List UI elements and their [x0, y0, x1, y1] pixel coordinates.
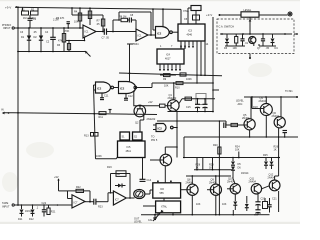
svg-text:IC7: IC7	[74, 202, 79, 205]
resistor R3	[57, 27, 66, 52]
resistors vertical to y157 rail	[197, 158, 213, 170]
text extra value labels	[74, 10, 277, 206]
wire gate input rail down	[94, 85, 96, 159]
relay box K1a	[120, 132, 130, 140]
svg-text:IC3: IC3	[188, 30, 193, 33]
svg-text:ADJ.: ADJ.	[238, 103, 244, 106]
svg-text:R19: R19	[107, 166, 112, 169]
svg-text:10K: 10K	[164, 85, 169, 88]
node +9V arrow bottom	[54, 176, 60, 191]
wire Q10 top	[233, 179, 235, 184]
svg-text:C22: C22	[42, 202, 47, 205]
diode D11	[20, 205, 24, 217]
resistor R26	[274, 146, 279, 152]
wire switch lower links	[225, 43, 276, 46]
IC U3 timebase	[178, 24, 205, 41]
text label OUTPUT	[134, 218, 142, 224]
svg-text:IC1: IC1	[138, 35, 143, 38]
wire input line	[14, 27, 83, 29]
resistor R28 label row	[196, 164, 215, 170]
svg-text:INPUT: INPUT	[3, 27, 11, 30]
wire T2 bottom drops	[158, 213, 173, 215]
diode D4 in switch	[271, 34, 275, 46]
svg-text:.05: .05	[33, 31, 37, 34]
wire Q12 collector	[275, 158, 279, 181]
diode D8	[270, 158, 274, 170]
capacitor C16 electrolytic	[203, 98, 208, 112]
svg-text:IC4: IC4	[166, 54, 171, 57]
wire bottom bus	[141, 214, 258, 216]
svg-text:2N404: 2N404	[259, 100, 267, 103]
text switch component values	[224, 42, 278, 50]
capacitor C19 input	[224, 123, 227, 129]
svg-text:IC2: IC2	[120, 87, 125, 91]
resistor R13 label midleft	[84, 133, 98, 138]
resistor R11 on trigger bus	[99, 112, 107, 119]
potentiometer LEVEL	[241, 9, 259, 22]
wire Q5 collector up	[250, 97, 252, 119]
svg-text:R13: R13	[84, 135, 89, 138]
capacitor C15 electrolytic	[186, 99, 200, 112]
node junction to feedback	[112, 31, 114, 33]
wire nub at y90	[212, 89, 219, 91]
wire gate b output drop to driver bases	[134, 89, 160, 106]
wire feedback riser opamp2	[112, 20, 114, 32]
wire IC5 input left	[96, 158, 117, 159]
ground tick below bus	[153, 215, 157, 220]
wire left rail vertical	[17, 7, 19, 205]
svg-text:2N404: 2N404	[249, 180, 257, 183]
svg-text:R11: R11	[99, 116, 104, 119]
wire IC5 pin drop	[140, 158, 152, 183]
diode D12	[31, 205, 35, 217]
wire +9V top bus	[15, 7, 181, 9]
wire opamp4 output	[126, 197, 134, 199]
diode D1	[21, 27, 31, 52]
svg-text:4017: 4017	[165, 58, 171, 61]
svg-text:R21: R21	[51, 211, 56, 214]
wire between gates	[114, 87, 119, 89]
op-amp IC7b	[113, 191, 126, 205]
resistor R16 on divider bus	[180, 73, 186, 76]
transistor Q5	[242, 114, 255, 130]
svg-text:.05: .05	[266, 47, 270, 50]
wire long trigger bus	[13, 112, 157, 115]
resistor R25 feedback opamp4	[111, 171, 131, 199]
capacitor C2	[46, 27, 56, 52]
gate IC2b	[94, 82, 114, 93]
svg-text:LEVEL: LEVEL	[134, 221, 142, 224]
svg-text:470K: 470K	[64, 30, 70, 33]
wire pot right to output terminal	[259, 14, 288, 16]
capacitor C9 in switch	[240, 34, 244, 46]
text tape input values	[18, 207, 39, 222]
capacitor C20 electrolytic stack	[255, 194, 260, 215]
svg-text:TO M1: TO M1	[285, 90, 293, 93]
wire Q1 collector up to clock bus	[173, 82, 175, 100]
svg-text:C12: C12	[128, 95, 133, 98]
transistor Q7 switch	[249, 36, 256, 43]
diode D9 below Q10	[233, 194, 237, 210]
wire Q10 base left	[227, 188, 233, 190]
wire Q2 emitter down	[143, 114, 145, 120]
wire top rail right	[244, 90, 298, 98]
wire boxes to IC5	[125, 140, 138, 141]
transistor Q3	[160, 154, 172, 166]
wire meter return to T2	[143, 205, 156, 207]
wire opamp2 bottom to divider bus	[127, 44, 133, 82]
capacitor C5 trimmer	[184, 15, 200, 21]
capacitor C11 under gate b	[100, 94, 104, 100]
small box C17	[196, 94, 206, 105]
svg-text:2N2222: 2N2222	[147, 118, 156, 121]
svg-text:10K: 10K	[196, 203, 201, 206]
svg-text:.05: .05	[96, 23, 100, 26]
node phono input terminal	[2, 24, 14, 30]
node +9V supply terminal	[5, 6, 17, 10]
svg-text:R18: R18	[253, 106, 258, 109]
wire Q3 base	[150, 159, 164, 161]
wire x184 riser	[183, 137, 185, 158]
wire gate d output	[173, 127, 178, 129]
svg-text:C.A. SWITCH: C.A. SWITCH	[219, 26, 235, 29]
capacitor C7 coupling	[102, 29, 137, 40]
wire feedback top loop	[118, 12, 151, 35]
wire Q4 emitter down	[265, 116, 267, 138]
svg-text:+9 V: +9 V	[206, 13, 212, 17]
capacitor C13 tick	[109, 110, 112, 114]
capacitor C22	[42, 202, 47, 217]
svg-text:4046: 4046	[187, 34, 193, 37]
text label LEVEL ADJ	[236, 100, 244, 106]
resistor R12 in switch	[235, 34, 238, 46]
wire Q3 collector link	[165, 146, 178, 154]
capacitor C10 in switch	[261, 34, 265, 46]
svg-text:C14: C14	[147, 179, 152, 182]
wire rail y169.7	[194, 169, 233, 171]
svg-text:2.2M: 2.2M	[53, 19, 59, 22]
wire diode column to bus	[232, 210, 234, 215]
svg-text:1K: 1K	[209, 167, 212, 170]
text label TO PIN	[151, 136, 158, 142]
wire T1-T2 stub	[163, 198, 165, 201]
svg-text:100K: 100K	[96, 155, 102, 158]
svg-text:IC2: IC2	[158, 127, 163, 131]
wire vertical x177 down	[176, 112, 178, 158]
wire cluster bottom rail	[168, 111, 214, 113]
box T1	[153, 181, 181, 199]
wire Q11-Q12 link	[262, 186, 270, 189]
svg-text:INPUT: INPUT	[2, 205, 10, 208]
node bias label mid	[148, 101, 153, 104]
wire Q9 base	[207, 189, 214, 191]
svg-text:+9V: +9V	[54, 176, 59, 179]
svg-text:C11: C11	[104, 95, 109, 98]
svg-text:IC1: IC1	[85, 31, 90, 34]
capacitor C6 on input	[64, 22, 70, 33]
transistor Q12	[268, 173, 281, 190]
wire tape input line	[14, 204, 72, 206]
svg-text:IC2: IC2	[157, 32, 162, 36]
diode D5 chain	[231, 158, 241, 179]
wire mid bus right continuation	[157, 121, 226, 125]
node trigger input terminal	[1, 109, 13, 115]
wire bus drop to gate top	[162, 8, 164, 26]
transistor Q4	[259, 97, 273, 116]
svg-text:10K: 10K	[235, 149, 240, 152]
wire Q9 emitter	[215, 195, 217, 214]
svg-text:IC5: IC5	[127, 146, 132, 149]
svg-text:XTAL: XTAL	[161, 206, 168, 209]
gate IC2d	[153, 124, 173, 132]
capacitor C12 under gate c	[124, 94, 128, 100]
svg-text:C15: C15	[186, 106, 191, 109]
wire right edge drop	[278, 191, 280, 212]
transistor Q1	[168, 94, 180, 111]
wiper arrow into T2	[148, 210, 164, 222]
op-amp IC1a	[83, 25, 96, 38]
transistor Q8	[186, 179, 199, 196]
wire Q8 base	[181, 189, 191, 191]
resistor R27 small loop	[263, 198, 268, 209]
capacitor C23 series on output	[94, 192, 114, 209]
wire wiper into switch box	[249, 22, 251, 35]
pin number labels IC3	[180, 46, 194, 48]
wire long rail from +9V label down	[212, 17, 214, 112]
wire Q6 emitter down	[278, 128, 280, 158]
capacitor C21	[267, 198, 271, 213]
wire gate output to IC3	[172, 31, 178, 33]
svg-text:100K: 100K	[186, 78, 192, 81]
wire bus drop to gate input	[152, 8, 155, 30]
wire divider bus y75	[119, 73, 222, 76]
wire opamp3 plus input	[58, 204, 73, 206]
svg-text:47K: 47K	[58, 40, 63, 43]
capacitor C18 beside Q6	[283, 131, 288, 138]
op-amp IC1b	[133, 29, 148, 46]
IC4 bottom pin stubs	[159, 64, 181, 71]
wire opamp2 output to gate	[148, 34, 155, 36]
svg-text:1N914: 1N914	[241, 172, 249, 175]
capacitor C8 feedback	[128, 14, 137, 29]
svg-text:4511: 4511	[126, 150, 132, 153]
transistor Q10	[227, 177, 241, 194]
gate IC2c	[119, 82, 137, 94]
diode D10	[245, 196, 249, 211]
wire Q5 base input	[227, 123, 247, 126]
wire bottom right link	[254, 214, 270, 216]
wire Q9 collector	[215, 176, 217, 184]
transistor Q9	[209, 179, 221, 196]
resistor R5 to ground bus	[58, 40, 71, 53]
svg-text:D11: D11	[18, 218, 23, 221]
transistor Q2	[134, 105, 146, 124]
svg-text:10K: 10K	[222, 203, 227, 206]
IC3 bottom pin stubs	[181, 41, 205, 83]
box T2	[156, 201, 181, 213]
svg-text:R25: R25	[263, 154, 268, 157]
junctions on bus y75	[196, 74, 206, 76]
IC U4 divider	[157, 49, 184, 64]
svg-text:XTAL: XTAL	[183, 10, 190, 13]
resistor R6 feedback	[56, 7, 92, 25]
meter M1	[134, 189, 145, 198]
svg-text:.01: .01	[245, 42, 249, 45]
pot wiper arrow on bus	[86, 52, 91, 57]
wire supply drop to divider	[71, 7, 103, 15]
wire y157 rail	[183, 157, 280, 159]
resistor R9 under IC4	[160, 74, 176, 81]
svg-text:+9V: +9V	[148, 101, 153, 104]
resistor R14 base Q1	[160, 104, 172, 107]
crystal Y1 above IC3	[188, 6, 201, 25]
resistor R15	[185, 97, 198, 100]
wire Q4 collector up	[265, 97, 267, 104]
wire right supply line	[220, 14, 241, 16]
node tape input terminal	[2, 202, 14, 208]
wire opamp1 noninverting return	[66, 38, 85, 42]
svg-text:R23: R23	[98, 206, 103, 209]
relay box K1b	[133, 132, 143, 140]
wire Q5 emitter down	[249, 130, 251, 137]
resistor R7 divider	[97, 15, 105, 32]
svg-text:10K: 10K	[233, 47, 238, 50]
transistor Q6	[272, 112, 286, 128]
wire meter link	[145, 190, 153, 194]
svg-text:IC7: IC7	[115, 198, 120, 201]
wire top bus corner into IC3	[180, 9, 182, 24]
svg-text:5534: 5534	[133, 43, 139, 46]
resistor R21	[47, 205, 56, 215]
text misc value labels	[20, 17, 156, 121]
wire Q6 collector up	[280, 97, 282, 117]
gate IC2a	[156, 27, 173, 39]
wire Q8 collector	[191, 176, 193, 184]
diode D13 in loop	[115, 184, 126, 188]
svg-text:2N2222: 2N2222	[168, 97, 177, 100]
svg-text:D12: D12	[29, 218, 34, 221]
wire switch internal bus	[220, 33, 298, 35]
svg-text:PIN 5: PIN 5	[151, 139, 158, 142]
resistor R10 on clock bus	[175, 82, 183, 90]
svg-text:IC6: IC6	[160, 188, 165, 191]
wire Q4 base feed	[252, 97, 264, 109]
wire switch output stub	[249, 54, 251, 60]
resistor R24	[235, 146, 240, 158]
diode D7	[264, 158, 268, 170]
resistor R1	[22, 7, 29, 15]
resistor R8 feedback opamp2	[113, 16, 128, 22]
node calibrate terminal	[288, 12, 292, 16]
wire ground bus of input section	[18, 51, 86, 53]
svg-text:C21: C21	[272, 198, 277, 201]
wire rail y176	[186, 175, 231, 177]
wire gate c output	[137, 87, 152, 89]
IC U5	[118, 141, 146, 158]
diode D3 in switch	[225, 34, 229, 46]
svg-text:R22: R22	[76, 186, 81, 189]
svg-text:1M: 1M	[117, 173, 120, 176]
svg-text:1M: 1M	[32, 17, 35, 20]
capacitor C1	[28, 15, 37, 28]
svg-text:LEVEL: LEVEL	[244, 9, 252, 12]
svg-text:R10: R10	[175, 87, 180, 90]
wire opamp1 output	[96, 31, 104, 33]
wire Q1 emitter right rail	[179, 99, 215, 104]
svg-text:R20: R20	[213, 144, 218, 147]
op-amp IC7a	[72, 195, 85, 208]
svg-text:1M: 1M	[23, 17, 26, 20]
resistor R2	[31, 8, 39, 16]
svg-text:C7 .05: C7 .05	[102, 37, 110, 40]
svg-text:IC2: IC2	[97, 87, 102, 91]
resistor R4 bias from +9V to opamp input	[74, 7, 82, 29]
wire Q8 emitter	[191, 195, 193, 214]
svg-text:IN: IN	[1, 109, 4, 112]
wire clock bus y83	[152, 82, 214, 87]
transistor Q11	[249, 177, 262, 194]
wire opamp3 output	[85, 201, 94, 203]
resistor R22 feedback opamp3	[68, 186, 91, 202]
svg-text:R8 1M: R8 1M	[119, 16, 126, 19]
junction top-left	[17, 6, 19, 8]
svg-text:C20: C20	[261, 198, 266, 201]
svg-text:555: 555	[160, 192, 165, 195]
node +9V right terminal	[206, 13, 221, 17]
diode D2	[34, 27, 44, 52]
resistor R20 vertical	[213, 120, 221, 215]
C.A. switch dashed enclosure	[217, 19, 294, 54]
svg-text:CAL: CAL	[148, 219, 153, 222]
wire Q3 emitter to box T1	[164, 166, 166, 183]
svg-text:+9 V: +9 V	[5, 6, 11, 10]
svg-text:1K: 1K	[274, 149, 277, 152]
svg-text:10K: 10K	[74, 21, 79, 24]
wire +9V feed to opamp3	[59, 190, 68, 192]
wire right ground rail y138	[184, 136, 298, 138]
